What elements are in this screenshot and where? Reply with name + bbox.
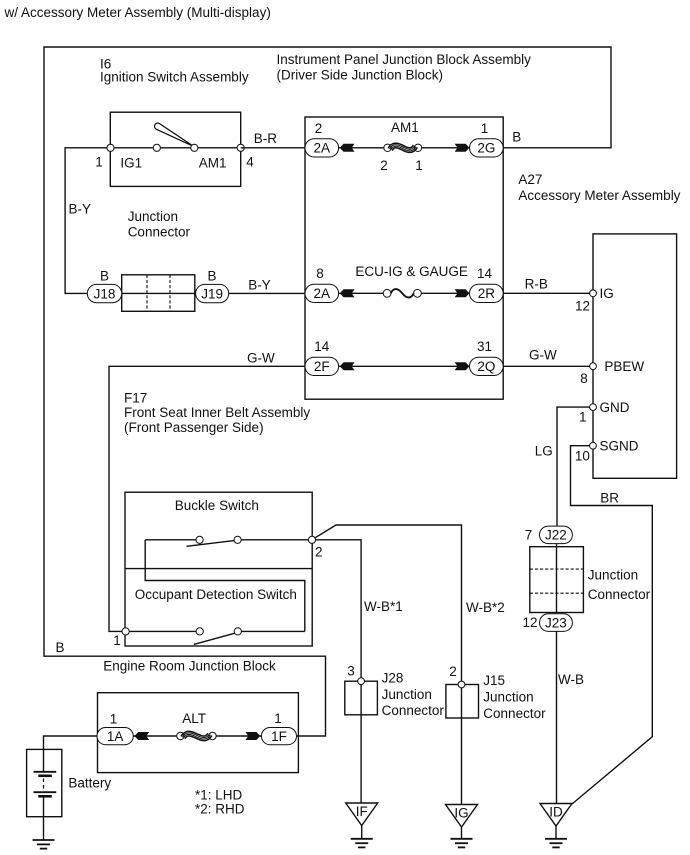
svg-text:Accessory Meter Assembly: Accessory Meter Assembly xyxy=(518,188,680,203)
buckle switch blade xyxy=(187,541,235,547)
svg-text:G-W: G-W xyxy=(247,351,275,366)
svg-text:1: 1 xyxy=(110,712,118,727)
F17 box xyxy=(125,492,312,646)
arrow left row3 xyxy=(340,363,353,370)
ground triangle IF xyxy=(346,803,378,826)
svg-text:LG: LG xyxy=(535,443,553,458)
fuse ECU-IG & GAUGE xyxy=(383,289,391,297)
wire G-W 2F to F17 xyxy=(109,366,305,631)
arrow left row2 xyxy=(340,290,353,297)
svg-text:2: 2 xyxy=(315,545,323,560)
connector J19 xyxy=(196,284,229,302)
ground battery xyxy=(33,839,55,841)
arrow right row3 xyxy=(456,363,469,370)
arrow right row2 xyxy=(456,290,469,297)
fuse ALT xyxy=(177,732,184,739)
svg-text:IG: IG xyxy=(454,806,468,821)
svg-text:12: 12 xyxy=(522,615,537,630)
svg-text:*1: LHD: *1: LHD xyxy=(195,788,243,803)
wire through connector xyxy=(122,292,196,294)
A27 accessory meter box xyxy=(593,234,677,478)
svg-text:B-Y: B-Y xyxy=(69,202,92,217)
svg-text:2A: 2A xyxy=(314,141,331,156)
svg-text:1F: 1F xyxy=(271,729,287,744)
svg-text:2: 2 xyxy=(380,158,388,173)
ground triangle IG xyxy=(446,805,478,828)
svg-text:Connector: Connector xyxy=(483,706,546,721)
connector 2R xyxy=(470,284,504,302)
svg-text:Connector: Connector xyxy=(382,703,445,718)
wire buckle row right xyxy=(241,539,312,541)
wire row1 segments xyxy=(339,147,384,149)
dashed divider 2 xyxy=(169,275,171,312)
svg-text:J19: J19 xyxy=(201,286,223,301)
svg-text:R-B: R-B xyxy=(525,277,548,292)
svg-text:J15: J15 xyxy=(483,673,505,688)
connector 2F xyxy=(305,357,339,375)
svg-text:4: 4 xyxy=(246,155,254,170)
svg-text:IG1: IG1 xyxy=(120,156,142,171)
svg-text:W-B*2: W-B*2 xyxy=(466,600,505,615)
svg-text:ECU-IG & GAUGE: ECU-IG & GAUGE xyxy=(355,264,468,279)
svg-text:1: 1 xyxy=(274,711,282,726)
svg-text:Occupant Detection Switch: Occupant Detection Switch xyxy=(135,587,297,602)
wire BR SGND to ID ground xyxy=(571,446,653,804)
svg-text:J28: J28 xyxy=(382,671,404,686)
stem IG xyxy=(461,827,463,839)
svg-text:14: 14 xyxy=(314,339,330,354)
wire ignition row xyxy=(111,147,241,149)
svg-text:W-B: W-B xyxy=(558,672,584,687)
svg-text:Buckle Switch: Buckle Switch xyxy=(175,498,259,513)
svg-text:1A: 1A xyxy=(107,729,124,744)
svg-text:IG: IG xyxy=(600,286,614,301)
pin 2 buckle xyxy=(308,536,315,543)
battery plate short 1 xyxy=(38,774,52,777)
wire 1A to battery xyxy=(44,736,98,772)
svg-text:2R: 2R xyxy=(478,286,496,301)
svg-text:A27: A27 xyxy=(518,172,542,187)
svg-text:Ignition Switch Assembly: Ignition Switch Assembly xyxy=(100,70,249,85)
contact 2 buckle xyxy=(234,536,241,543)
pin GND xyxy=(590,404,597,411)
connector 2G xyxy=(470,139,504,157)
wire occupant row right xyxy=(241,630,305,632)
svg-text:PBEW: PBEW xyxy=(604,359,644,374)
pin 3 J28 xyxy=(358,678,365,685)
svg-text:1: 1 xyxy=(481,121,489,136)
junction connector box J18/J19 xyxy=(122,275,195,312)
dashed divider 2 xyxy=(530,592,584,594)
svg-text:BR: BR xyxy=(600,491,619,506)
svg-text:B-Y: B-Y xyxy=(248,278,271,293)
svg-text:B: B xyxy=(56,640,65,655)
connector 1F xyxy=(261,728,296,745)
fuse AM1 xyxy=(384,144,391,151)
svg-text:J22: J22 xyxy=(545,528,567,543)
wire buckle row left xyxy=(145,539,196,541)
svg-text:2: 2 xyxy=(315,121,323,136)
svg-text:Connector: Connector xyxy=(128,225,191,240)
connector 2A row2 xyxy=(305,284,339,302)
contact IG1 xyxy=(153,144,160,151)
wire W-B J23 to ID ground xyxy=(556,631,558,804)
connector J18 xyxy=(87,284,121,302)
svg-text:F17: F17 xyxy=(124,391,147,406)
battery dashed center xyxy=(43,779,45,791)
wire buckle to occupant switch xyxy=(145,540,305,632)
wire battery to ground xyxy=(43,796,45,840)
junction connector box J22/J23 xyxy=(530,547,584,613)
arrow right row1 xyxy=(456,144,469,151)
svg-text:IF: IF xyxy=(356,804,368,819)
svg-text:w/ Accessory Meter Assembly (M: w/ Accessory Meter Assembly (Multi-displ… xyxy=(4,5,271,20)
stem IF xyxy=(361,826,363,839)
svg-text:8: 8 xyxy=(580,371,588,386)
svg-text:1: 1 xyxy=(95,155,103,170)
svg-text:14: 14 xyxy=(477,266,493,281)
svg-text:Instrument Panel Junction Bloc: Instrument Panel Junction Block Assembly xyxy=(277,52,532,67)
wire W-B*2 pin2 to J15 to IG xyxy=(315,525,462,805)
svg-text:31: 31 xyxy=(477,339,492,354)
wire 2R to IG pin xyxy=(503,292,590,294)
svg-text:(Front Passenger Side): (Front Passenger Side) xyxy=(124,420,264,435)
connector 2Q xyxy=(470,357,504,375)
wire W-B*1 pin2 to J28 to IF xyxy=(315,540,361,804)
svg-text:Connector: Connector xyxy=(588,587,651,602)
pin IG xyxy=(590,290,597,297)
svg-text:B: B xyxy=(512,130,521,145)
svg-text:ID: ID xyxy=(549,805,563,820)
wire row2 segments xyxy=(339,292,384,294)
svg-text:J23: J23 xyxy=(545,615,567,630)
wire J19 to 2A xyxy=(229,292,305,294)
ignition switch box I6 xyxy=(110,112,240,186)
svg-text:2F: 2F xyxy=(314,359,330,374)
contact 1 occupant xyxy=(196,628,203,635)
battery plate short 2 xyxy=(38,795,52,798)
ignition switch blade xyxy=(155,123,194,146)
svg-text:Junction: Junction xyxy=(382,687,432,702)
dashed divider 1 xyxy=(146,275,148,312)
svg-text:Junction: Junction xyxy=(483,690,533,705)
junction connector box J15 xyxy=(446,685,479,719)
battery plate long 2 xyxy=(34,791,57,793)
connector 1A xyxy=(97,728,133,745)
wire row 1A-1F segments xyxy=(133,735,177,737)
svg-text:3: 3 xyxy=(347,664,355,679)
svg-text:AM1: AM1 xyxy=(199,156,227,171)
contact 1 buckle xyxy=(196,536,203,543)
svg-text:Battery: Battery xyxy=(68,776,111,791)
svg-text:AM1: AM1 xyxy=(391,120,419,135)
svg-text:8: 8 xyxy=(316,266,324,281)
svg-text:Engine Room Junction Block: Engine Room Junction Block xyxy=(103,658,276,673)
contact 2 occupant xyxy=(234,628,241,635)
svg-text:J18: J18 xyxy=(94,286,116,301)
svg-text:Front Seat Inner Belt Assembly: Front Seat Inner Belt Assembly xyxy=(124,405,310,420)
battery plate long 1 xyxy=(34,771,57,773)
ground triangle ID xyxy=(540,804,572,827)
wire through junction connector xyxy=(556,544,558,614)
ground ID xyxy=(545,838,567,840)
svg-text:Junction: Junction xyxy=(128,209,178,224)
wire occupant row left xyxy=(129,630,197,632)
junction connector box J28 xyxy=(345,681,378,715)
arrow left ALT xyxy=(135,733,148,740)
svg-text:B-R: B-R xyxy=(254,131,277,146)
pin 4 ignition xyxy=(237,144,244,151)
pin 1 ignition xyxy=(107,144,114,151)
wire B net outer loop xyxy=(44,47,611,736)
connector J22 xyxy=(540,526,573,544)
svg-text:2Q: 2Q xyxy=(477,359,495,374)
pin 2 J15 xyxy=(458,681,465,688)
svg-text:W-B*1: W-B*1 xyxy=(364,599,403,614)
svg-text:*2: RHD: *2: RHD xyxy=(195,802,245,817)
connector 2A row1 xyxy=(305,139,339,157)
svg-text:1: 1 xyxy=(579,410,587,425)
svg-text:Junction: Junction xyxy=(588,567,638,582)
wire LG GND to J22 xyxy=(557,407,590,526)
pin PBEW xyxy=(590,363,597,370)
arrow left row1 xyxy=(340,144,353,151)
battery box xyxy=(27,749,62,816)
occupant switch blade xyxy=(194,633,235,644)
svg-text:B: B xyxy=(207,269,216,284)
svg-text:B: B xyxy=(100,269,109,284)
wire 2Q to PBEW xyxy=(503,365,590,367)
svg-text:GND: GND xyxy=(600,400,630,415)
divider line xyxy=(125,568,312,570)
connector J23 xyxy=(540,614,573,632)
svg-text:10: 10 xyxy=(575,449,590,464)
svg-text:G-W: G-W xyxy=(529,348,557,363)
svg-text:2A: 2A xyxy=(314,286,331,301)
svg-text:1: 1 xyxy=(415,158,423,173)
engine room junction block box xyxy=(98,693,299,773)
wire B-Y ignition pin1 to J18 xyxy=(65,148,110,294)
pin 1 occupant xyxy=(122,628,129,635)
ground IG xyxy=(451,838,473,840)
svg-text:1: 1 xyxy=(113,633,121,648)
ground IF xyxy=(351,838,373,840)
wire row3 xyxy=(339,365,470,367)
pivot contact xyxy=(191,144,198,151)
pin SGND xyxy=(590,442,597,449)
junction block box xyxy=(305,117,503,399)
stem ID xyxy=(555,826,557,839)
svg-text:12: 12 xyxy=(575,298,590,313)
dashed divider 1 xyxy=(530,568,584,570)
svg-text:(Driver Side Junction Block): (Driver Side Junction Block) xyxy=(277,68,444,83)
wire pin4 to 2A xyxy=(241,147,305,149)
svg-text:7: 7 xyxy=(525,528,533,543)
svg-text:ALT: ALT xyxy=(182,711,206,726)
arrow right ALT xyxy=(246,733,259,740)
svg-text:2G: 2G xyxy=(477,141,495,156)
svg-text:SGND: SGND xyxy=(600,439,639,454)
svg-text:2: 2 xyxy=(449,664,457,679)
